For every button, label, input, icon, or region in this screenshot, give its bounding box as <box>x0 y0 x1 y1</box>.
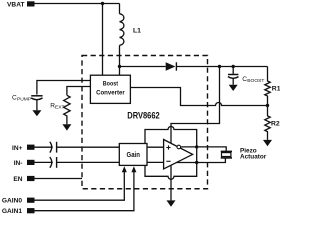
svg-text:IN-: IN- <box>14 160 23 167</box>
node CBOOST tap <box>232 65 235 68</box>
svg-text:VBAT: VBAT <box>7 1 24 8</box>
capacitor on IN- <box>50 157 52 168</box>
resistor R2 <box>265 106 270 140</box>
svg-text:PUMP: PUMP <box>17 97 31 103</box>
op-amp triangle <box>164 140 193 170</box>
svg-text:Boost: Boost <box>103 80 119 87</box>
pin GAIN0 <box>27 198 35 203</box>
node OUT- <box>195 161 198 164</box>
label op-amp minus <box>166 160 170 162</box>
piezo actuator element <box>221 150 232 152</box>
gain box <box>119 144 147 166</box>
capacitor CBOOST <box>232 67 234 74</box>
wire gain to amp + <box>147 146 164 148</box>
svg-text:EXT: EXT <box>55 105 65 111</box>
op-amp inverting output bubble <box>177 145 181 149</box>
wire SW node to diode anode <box>120 66 166 68</box>
wire boost FB to divider (hop over supply line) <box>130 88 267 106</box>
pin VBAT <box>27 1 35 6</box>
wire EN <box>35 178 83 180</box>
resistor REXT <box>64 95 70 124</box>
boost converter box <box>90 75 130 103</box>
pin GAIN1 <box>27 208 35 213</box>
wire diode cathode to top rail <box>176 66 267 68</box>
wire IN+ input rail <box>35 146 53 148</box>
wire IN- input rail <box>35 161 53 163</box>
pin IN+ <box>27 145 35 150</box>
svg-text:Actuator: Actuator <box>240 154 267 161</box>
node amp supply tap <box>218 65 221 68</box>
capacitor CPUMP wire <box>37 81 91 95</box>
ground below amplifier <box>167 200 176 206</box>
wire VBAT to boost converter VDD <box>102 4 104 76</box>
diode D1 <box>166 62 176 70</box>
ground below CBOOST <box>229 85 238 91</box>
svg-text:EN: EN <box>13 176 22 183</box>
node VBAT junction <box>101 2 104 5</box>
capacitor on IN+ <box>50 142 52 153</box>
arrow GAIN1 into gain box <box>131 166 136 172</box>
svg-text:Gain: Gain <box>127 152 140 159</box>
svg-text:L1: L1 <box>133 28 141 35</box>
node OUT+ <box>195 145 198 148</box>
pin IN- <box>27 160 35 165</box>
IC boundary dashed box DRV8662 <box>82 56 208 189</box>
svg-text:IN+: IN+ <box>12 145 23 152</box>
wire gain to amp - <box>147 161 164 163</box>
ground below CPUMP <box>32 110 41 116</box>
node R1 R2 junction <box>266 104 269 107</box>
wire amp ground <box>170 165 172 200</box>
svg-text:GAIN0: GAIN0 <box>2 197 22 204</box>
svg-text:Converter: Converter <box>96 89 125 96</box>
svg-text:GAIN1: GAIN1 <box>2 208 22 215</box>
wire GAIN0 <box>35 172 125 200</box>
wire OUT+ to piezo top <box>181 147 227 151</box>
wire L1 to boost SW <box>119 45 121 75</box>
wire amp supply: down, left, down to amp <box>171 67 220 144</box>
capacitor CPUMP <box>31 95 42 97</box>
node SW junction <box>118 65 121 68</box>
wire GAIN1 <box>35 172 134 211</box>
wire OUT- to piezo bottom <box>177 158 226 163</box>
resistor R1 <box>265 67 270 106</box>
amplifier output loop rectangle with hops <box>145 127 197 180</box>
label op-amp plus <box>166 145 170 149</box>
inductor L1 <box>120 14 124 46</box>
svg-text:R1: R1 <box>272 86 280 93</box>
arrow GAIN0 into gain box <box>122 166 127 172</box>
svg-text:R2: R2 <box>271 120 280 127</box>
ground below REXT <box>62 124 71 130</box>
wire VBAT rail <box>35 3 120 5</box>
resistor REXT wire <box>67 87 91 96</box>
wire L1 top lead <box>119 4 121 14</box>
svg-text:DRV8662: DRV8662 <box>127 111 159 121</box>
svg-text:BOOST: BOOST <box>247 78 264 84</box>
pin EN <box>27 176 35 181</box>
ground below R2 <box>263 140 272 146</box>
